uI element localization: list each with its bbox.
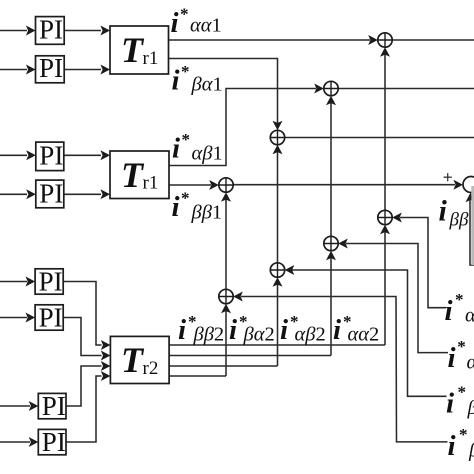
arrowhead PI4 to Tr1b <box>100 189 110 199</box>
plus sign at final summer <box>444 173 452 181</box>
arrowhead chain into S6 from below <box>326 251 336 261</box>
svg-text:*: * <box>458 383 467 402</box>
transform block Tr1b <box>110 151 169 199</box>
wire input 8 to PI8 <box>0 441 30 443</box>
arrowhead wrap4 into S8 from right <box>233 292 243 302</box>
svg-text:i: i <box>439 195 448 228</box>
wire input 4 to PI4 <box>0 193 27 195</box>
svg-text:PI: PI <box>39 15 63 45</box>
wire input 5 to PI5 <box>0 281 27 283</box>
wire PI4 to Tr1b <box>64 193 101 195</box>
svg-text:ββ2: ββ2 <box>193 324 225 346</box>
arrowhead into junction S1 from left <box>368 35 378 45</box>
arrowhead PI3 to Tr1b <box>100 150 110 160</box>
svg-text:T: T <box>121 30 145 70</box>
svg-text:i: i <box>333 314 341 346</box>
arrowhead input 6 <box>26 313 36 323</box>
arrowhead Tr2 input 3 <box>101 361 111 371</box>
PI controller box PI2 <box>36 56 65 83</box>
arrowhead chain into S1 from below <box>380 47 390 57</box>
gray crop artifact bar right edge <box>471 186 474 265</box>
PI controller box PI5 <box>35 269 63 294</box>
svg-text:i: i <box>172 191 180 223</box>
svg-text:*: * <box>181 189 190 208</box>
svg-text:*: * <box>455 290 464 309</box>
svg-text:PI: PI <box>42 427 66 457</box>
wire PI5 to Tr2 input 1 <box>63 282 101 346</box>
arrowhead wrap3 into S7 from right <box>285 265 295 275</box>
svg-text:α: α <box>467 352 474 374</box>
svg-text:i: i <box>448 342 456 374</box>
junction S3 cross <box>270 130 284 144</box>
transform block Tr1a <box>110 26 169 74</box>
svg-text:αα1: αα1 <box>190 15 222 37</box>
svg-text:T: T <box>121 155 145 195</box>
svg-text:i: i <box>172 65 180 97</box>
arrowhead wrap2 into S6 from right <box>338 239 348 249</box>
arrowhead into junction S4 from left <box>209 180 219 190</box>
summing junction S2 <box>324 81 338 95</box>
wire i*aa1 from Tr1a to junction S1 <box>169 39 371 41</box>
svg-text:αβ1: αβ1 <box>192 142 223 164</box>
junction S8 cross <box>219 289 233 303</box>
arrowhead wrap1 into S5 from right <box>392 213 402 223</box>
arrowhead input 1 <box>26 26 36 36</box>
junction S2 cross <box>324 81 338 95</box>
wire PI8 to Tr2 input 4 <box>66 376 102 442</box>
svg-text:r1: r1 <box>143 173 159 194</box>
wire junction S3 output to right edge <box>284 137 474 139</box>
wire i*ab1 junction S2 to right edge <box>338 88 474 90</box>
wire chain x226 upper from S8 to S4 <box>225 198 227 291</box>
svg-text:i: i <box>448 430 456 462</box>
PI controller box PI6 <box>35 305 63 330</box>
wire input 7 to PI7 <box>0 405 30 407</box>
wire chain x277.5 lower from Tr2 out3 up to junction S7 <box>277 283 279 366</box>
arrowhead into final summer from left <box>453 180 463 190</box>
svg-text:r1: r1 <box>143 48 159 69</box>
wire i*ba1 from Tr1a down to junction S3 <box>169 59 278 126</box>
wire input 6 to PI6 <box>0 317 27 319</box>
arrowhead PI1 to Tr1a <box>100 26 110 36</box>
arrowhead chain into S2 from below <box>326 96 336 106</box>
arrowhead chain into S3 from below <box>273 145 283 155</box>
svg-text:PI: PI <box>39 303 63 333</box>
svg-text:ββ1: ββ1 <box>191 201 223 223</box>
wire wrap 4 from label i*bb3 into junction S8 <box>241 297 448 442</box>
junction S1 cross <box>378 33 392 47</box>
arrowhead input 3 <box>26 150 36 160</box>
summing junction S8 <box>219 289 233 303</box>
wire input 3 to PI3 <box>0 154 27 156</box>
arrowhead into junction S2 from left <box>314 84 324 94</box>
junction S7 cross <box>270 263 284 277</box>
svg-text:*: * <box>457 337 466 356</box>
junction S5 cross <box>378 210 392 224</box>
svg-text:*: * <box>459 425 468 444</box>
wire PI7 to Tr2 input 3 <box>66 366 102 406</box>
summing junction S5 <box>378 210 392 224</box>
arrowhead chain into S4 from below <box>221 192 231 202</box>
arrowhead into final summer from below <box>466 193 474 203</box>
svg-text:i: i <box>445 295 453 327</box>
svg-text:*: * <box>181 62 190 81</box>
wire i*aa1 junction S1 to right edge <box>392 39 474 41</box>
arrowhead Tr2 input 4 <box>101 371 111 381</box>
wire wrap 2 from label i*ab3 into junction S6 <box>346 244 448 353</box>
arrowhead PI2 to Tr1a <box>100 65 110 75</box>
summing junction S1 <box>378 33 392 47</box>
wire Tr2 output 2 i*ab2 <box>169 355 331 357</box>
arrowhead chain into S5 from below <box>380 225 390 235</box>
svg-text:PI: PI <box>39 267 63 297</box>
arrowhead input 4 <box>26 189 36 199</box>
svg-text:PI: PI <box>39 53 63 83</box>
wire i*bb1 from Tr1b to junction S4 <box>169 184 211 186</box>
wire i*ab1 from Tr1b up to junction S2 <box>169 89 316 166</box>
svg-text:β: β <box>467 397 474 419</box>
wire wrap 1 from label i*aa3 into junction S5 <box>400 218 446 308</box>
svg-text:i: i <box>178 314 186 346</box>
summing junction S4 <box>219 178 233 192</box>
svg-text:βα1: βα1 <box>191 74 223 96</box>
wire junction S4 output to final summer <box>233 184 456 186</box>
svg-text:βα2: βα2 <box>243 324 275 346</box>
wire PI1 to Tr1a <box>64 30 101 32</box>
arrowhead input 5 <box>26 277 36 287</box>
arrowhead chain into S8 from below <box>221 304 231 314</box>
svg-text:PI: PI <box>39 141 63 171</box>
svg-text:PI: PI <box>39 179 63 209</box>
wire Tr2 output 4 i*bb2 <box>169 375 226 377</box>
arrowhead Tr2 input 1 <box>101 340 111 350</box>
wire input 1 to PI1 <box>0 30 27 32</box>
wire Tr2 output 1 i*aa2 <box>169 344 385 346</box>
arrowhead Tr2 input 2 <box>101 351 111 361</box>
svg-text:β: β <box>468 440 474 462</box>
svg-text:i: i <box>446 388 454 420</box>
svg-text:*: * <box>180 5 189 24</box>
junction S4 cross <box>219 178 233 192</box>
arrowhead input 2 <box>26 65 36 75</box>
wire chain x277.5 upper from S7 to S3 <box>277 150 279 264</box>
summing junction S3 <box>270 130 284 144</box>
arrowhead into junction S3 from top <box>273 121 283 131</box>
svg-text:T: T <box>121 340 145 380</box>
wire Tr2 output 3 i*ba2 <box>169 365 277 367</box>
svg-text:αβ2: αβ2 <box>295 324 326 346</box>
summing junction S6 <box>324 236 338 250</box>
wire PI2 to Tr1a <box>64 69 101 71</box>
wire chain x385 upper from S5 to S1 <box>384 53 386 212</box>
wire PI6 to Tr2 input 2 <box>63 318 101 356</box>
wire input 2 to PI2 <box>0 69 27 71</box>
svg-text:i: i <box>229 314 237 346</box>
arrowhead chain into S7 from below <box>273 277 283 287</box>
wire chain x385 lower from Tr2 out1 up to junction S5 <box>384 230 386 345</box>
svg-text:i: i <box>171 7 179 39</box>
svg-text:α: α <box>465 305 474 327</box>
PI controller box PI3 <box>36 142 64 171</box>
wire i_bb feedback into final summer <box>470 198 474 265</box>
wire PI3 to Tr1b <box>64 154 101 156</box>
svg-text:i: i <box>172 133 180 165</box>
svg-text:αα2: αα2 <box>348 324 380 346</box>
wire chain x226 lower from Tr2 out4 up to junction S8 <box>225 309 227 376</box>
svg-text:ββ: ββ <box>449 210 469 231</box>
wire chain x331 lower from Tr2 out2 up to junction S6 <box>330 256 332 356</box>
arrowhead input 7 <box>29 401 39 411</box>
summing junction S7 <box>270 263 284 277</box>
wire wrap 3 from label i*ba3 into junction S7 <box>292 270 447 396</box>
final summing node <box>463 177 474 193</box>
svg-text:i: i <box>280 314 288 346</box>
junction S6 cross <box>324 236 338 250</box>
PI controller box PI8 <box>38 429 66 454</box>
PI controller box PI4 <box>36 180 64 208</box>
transform block Tr2 <box>110 336 169 383</box>
svg-text:*: * <box>182 130 191 149</box>
arrowhead input 8 <box>29 437 39 447</box>
svg-text:r2: r2 <box>143 358 159 379</box>
PI controller box PI1 <box>36 17 65 45</box>
wire chain x331 upper from S6 to S2 <box>330 101 332 237</box>
PI controller box PI7 <box>38 393 66 418</box>
svg-text:PI: PI <box>42 391 66 421</box>
